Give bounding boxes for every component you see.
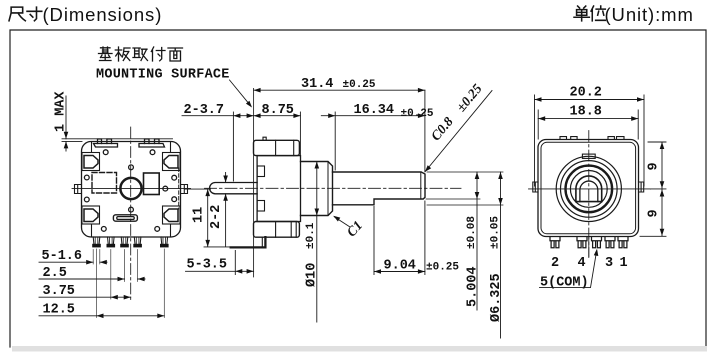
svg-text:1: 1	[620, 256, 628, 271]
svg-text:2: 2	[551, 256, 559, 271]
side mounting-surface long extension line	[253, 88, 255, 277]
svg-text:18.8: 18.8	[570, 105, 602, 120]
front crosshair horizontal	[72, 187, 191, 189]
corner block TR	[163, 153, 181, 171]
dim 11	[192, 207, 207, 223]
front dashed square left	[92, 173, 117, 194]
kanji 付	[151, 47, 165, 61]
front right edge hidden dashed line	[178, 168, 180, 209]
chamfer label C1	[334, 217, 350, 227]
dim 9 top	[647, 162, 662, 170]
front pin extension lines	[93, 249, 164, 318]
rear concentric circles	[556, 156, 621, 221]
shaft end extension lines	[426, 172, 503, 205]
chamfer label C0.8	[425, 91, 492, 172]
svg-text:±0.05: ±0.05	[490, 216, 502, 249]
front top pegs	[98, 139, 160, 144]
side top flange peg	[263, 137, 266, 140]
rear shaft D arch inner	[580, 181, 598, 202]
front crosshair vertical dash-dot	[130, 127, 132, 302]
front bottom slot	[113, 215, 137, 221]
rear crosshair horizontal	[529, 188, 651, 190]
front right side tab	[181, 185, 188, 194]
front view group	[62, 127, 191, 302]
rear right side tab	[639, 182, 644, 192]
svg-text:±0.25: ±0.25	[426, 262, 459, 274]
side bent terminal	[231, 237, 266, 247]
rear shaft D arch outer	[576, 176, 602, 202]
kanji 面	[168, 48, 183, 61]
svg-text:4: 4	[578, 256, 586, 271]
kanji 基	[99, 47, 113, 61]
side shaft end chamfer line	[420, 172, 422, 199]
svg-text:5.004: 5.004	[466, 266, 481, 307]
dim 9 bottom	[647, 209, 662, 217]
svg-text:9: 9	[647, 162, 662, 170]
svg-text:±0.1: ±0.1	[305, 222, 317, 249]
unit kanji 位	[591, 6, 605, 21]
kanji 板	[115, 47, 130, 61]
side bottom flange	[254, 222, 300, 238]
rear view group	[529, 131, 651, 258]
svg-text:20.2: 20.2	[570, 86, 602, 101]
corner block BL	[82, 206, 100, 224]
svg-text:±0.08: ±0.08	[466, 216, 478, 249]
front top platforms	[94, 144, 165, 148]
mounting surface leader	[230, 80, 251, 106]
svg-text:Ø10: Ø10	[305, 263, 320, 287]
front solid square right	[144, 173, 160, 195]
svg-text:3: 3	[605, 256, 613, 271]
title kanji 尺	[9, 7, 25, 21]
side mid body	[257, 156, 300, 222]
svg-text:5-3.5: 5-3.5	[187, 258, 228, 273]
unit kanji 单	[574, 6, 589, 21]
rear crosshair vertical dash-dot	[588, 131, 590, 258]
dim 2-2	[209, 205, 224, 229]
corner block BR	[163, 206, 181, 224]
svg-text:Ø6.325: Ø6.325	[489, 273, 504, 322]
rear top center rect	[582, 154, 595, 158]
dim phi6.325	[500, 172, 502, 338]
front pins	[93, 237, 167, 244]
kanji 取	[133, 48, 148, 61]
svg-text:(Unit):mm: (Unit):mm	[605, 4, 694, 25]
side shaft centerline	[205, 187, 462, 189]
front corner step lines	[92, 142, 171, 238]
svg-text:±0.25: ±0.25	[343, 79, 376, 91]
svg-text:11: 11	[192, 207, 207, 223]
dim 5.004	[476, 172, 478, 310]
svg-text:9: 9	[647, 209, 662, 217]
front body outline	[82, 142, 181, 238]
side top flange	[254, 140, 300, 155]
svg-text:12.5: 12.5	[43, 303, 75, 318]
dimensions group	[39, 47, 666, 338]
dim phi10	[316, 162, 318, 323]
bottom gray band	[12, 346, 707, 352]
side shaft	[333, 172, 426, 205]
front peg top line	[62, 138, 173, 140]
dim 1 MAX	[54, 91, 69, 132]
side bushing	[301, 162, 333, 216]
rear top bumps	[560, 137, 624, 140]
svg-text:5(COM): 5(COM)	[540, 276, 589, 291]
front pin feet	[92, 244, 168, 248]
svg-text:±0.25: ±0.25	[401, 108, 434, 120]
svg-text:(Dimensions): (Dimensions)	[43, 4, 163, 25]
corner block TL	[82, 153, 100, 171]
side pin root blocks	[257, 166, 264, 177]
front small holes	[84, 150, 176, 232]
side view group	[205, 88, 462, 277]
front left side tab	[75, 185, 82, 194]
rear pins	[550, 237, 628, 248]
svg-text:2-2: 2-2	[209, 205, 224, 229]
rear left side tab	[533, 182, 538, 192]
front center circle	[120, 178, 141, 199]
title kanji 寸	[27, 7, 42, 21]
rear body outline	[538, 140, 639, 237]
svg-text:MOUNTING SURFACE: MOUNTING SURFACE	[96, 68, 230, 83]
front 1MAX lower ext line	[62, 140, 82, 142]
side mounting pin (lug)	[210, 183, 258, 194]
